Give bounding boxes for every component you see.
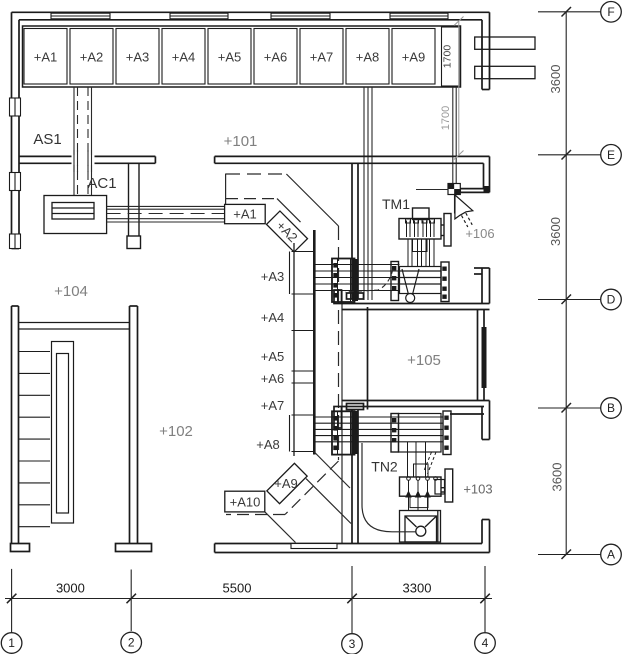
V lines and circle bbox=[402, 269, 409, 295]
corridor diagonal outer bbox=[286, 174, 338, 226]
cabinet +A3 bbox=[116, 29, 159, 85]
axis circle 2 bbox=[121, 632, 142, 653]
ext line 1 bbox=[11, 569, 13, 633]
wall segment lower bbox=[351, 410, 353, 544]
stair left foot bbox=[11, 544, 30, 552]
svg-text:+A3: +A3 bbox=[126, 50, 150, 65]
box +A9 rotated bbox=[267, 463, 307, 503]
corridor dashed outer bbox=[226, 173, 286, 175]
svg-text:+102: +102 bbox=[159, 423, 193, 440]
bend diagonal inner bottom bbox=[306, 479, 351, 524]
connector block C TN2 bbox=[443, 411, 451, 455]
AC1 outer box bbox=[44, 196, 107, 234]
tray divider 2 bbox=[292, 293, 315, 295]
box +A10 bbox=[225, 491, 265, 512]
svg-text:+A7: +A7 bbox=[310, 50, 334, 65]
wall left bottom cap bbox=[12, 248, 20, 250]
wall right top outer bbox=[489, 12, 491, 89]
TN2 drops from bundle bbox=[408, 442, 437, 477]
AC1 inner box bbox=[52, 203, 94, 220]
tick B bbox=[562, 403, 572, 413]
tray divider 6 bbox=[292, 414, 315, 416]
ext line 4 bbox=[484, 566, 486, 632]
axis circle 3 bbox=[342, 634, 363, 654]
door jamb +105 top bbox=[367, 307, 369, 410]
route dashed diagonal bottom bbox=[285, 461, 339, 515]
wall left outer line bbox=[11, 12, 13, 248]
connector block C TM1 bbox=[441, 262, 449, 302]
TM1 body bbox=[399, 219, 441, 240]
TN2 funnel bbox=[400, 511, 441, 543]
svg-text:+103: +103 bbox=[463, 482, 492, 497]
bottom right corner wall bbox=[481, 520, 483, 544]
route dashed horizontal bottom bbox=[226, 514, 285, 516]
svg-text:2: 2 bbox=[128, 636, 135, 650]
svg-text:B: B bbox=[607, 401, 615, 415]
svg-text:+A4: +A4 bbox=[172, 50, 196, 65]
lines through body bbox=[408, 480, 410, 510]
wall right of +105 bbox=[477, 310, 479, 401]
svg-text:F: F bbox=[607, 5, 614, 19]
box +A2 rotated bbox=[266, 211, 307, 252]
wall dark fill at bundle crossing TN2 bbox=[352, 411, 358, 454]
stair treads bbox=[19, 351, 51, 353]
svg-text:+A10: +A10 bbox=[230, 495, 261, 510]
door sill in bottom wall bbox=[291, 544, 337, 549]
junction box with cross bbox=[448, 184, 460, 195]
corridor diagonal inner bbox=[277, 199, 301, 223]
window band top wall bbox=[51, 13, 448, 19]
tick A bbox=[562, 550, 572, 560]
axis D line bbox=[538, 299, 601, 301]
TN2 body bbox=[400, 469, 453, 502]
bundle lines TN2 bbox=[314, 416, 443, 418]
cabinet +A5 bbox=[208, 29, 251, 85]
TN2 right pole rect bbox=[445, 469, 453, 502]
tick E bbox=[562, 150, 572, 160]
cable drop right to junction box bbox=[453, 87, 456, 214]
wall top outer line bbox=[12, 11, 490, 13]
wall left inner line bbox=[18, 20, 20, 249]
svg-text:1700: 1700 bbox=[440, 106, 452, 130]
axis circle F bbox=[601, 2, 622, 23]
axis B line bbox=[538, 407, 601, 409]
bottom dim line bbox=[5, 598, 492, 600]
svg-text:3600: 3600 bbox=[548, 217, 563, 246]
svg-text:+A4: +A4 bbox=[261, 310, 285, 325]
connector block A TM1 bbox=[332, 259, 355, 303]
TN2 cable curve bbox=[362, 443, 416, 532]
axis circle 1 bbox=[1, 633, 22, 654]
svg-text:5500: 5500 bbox=[223, 581, 252, 596]
svg-text:E: E bbox=[607, 148, 615, 162]
cabinet +A9 bbox=[392, 29, 435, 85]
window W1 bbox=[51, 13, 110, 19]
axis circle D bbox=[601, 289, 622, 310]
stair left wall bbox=[11, 306, 13, 544]
svg-text:+105: +105 bbox=[407, 352, 441, 369]
wall segment upper bbox=[351, 163, 353, 299]
tray divider 1 bbox=[292, 251, 315, 253]
tick 1 bbox=[7, 594, 17, 604]
TN2 top small rect bbox=[414, 464, 429, 477]
svg-text:3: 3 bbox=[349, 637, 356, 651]
wall D top of +105 bbox=[342, 303, 490, 305]
tick D bbox=[562, 295, 572, 305]
svg-text:TN2: TN2 bbox=[371, 459, 398, 475]
svg-text:+A2: +A2 bbox=[80, 50, 104, 65]
wall right top inner bbox=[481, 20, 483, 90]
bend diagonal outer bottom bbox=[314, 452, 350, 488]
svg-text:+A7: +A7 bbox=[261, 398, 285, 413]
axis circle A bbox=[601, 544, 622, 565]
connector block B TM1 bbox=[391, 262, 399, 301]
pier below B wall bbox=[334, 407, 342, 429]
bar right of B wall bbox=[450, 413, 484, 415]
svg-text:+A1: +A1 bbox=[34, 50, 58, 65]
svg-text:AS1: AS1 bbox=[33, 131, 61, 148]
svg-text:+A9: +A9 bbox=[274, 476, 298, 491]
svg-text:+A8: +A8 bbox=[356, 50, 380, 65]
TM1 right pole rect bbox=[444, 214, 451, 247]
window WL2 bbox=[10, 173, 21, 191]
corridor dashed inner bbox=[226, 198, 277, 200]
wall cap upper bbox=[347, 293, 364, 299]
tick 2 bbox=[127, 594, 137, 604]
svg-text:4: 4 bbox=[482, 636, 489, 650]
bend left vertical bbox=[225, 174, 227, 205]
cabinet face line +A8 section bbox=[289, 415, 291, 452]
window W3 bbox=[271, 13, 330, 19]
wall AS1 segment bbox=[19, 155, 155, 157]
busway AC1 to +A1 bbox=[107, 206, 225, 222]
tick F bbox=[562, 7, 572, 17]
svg-text:AC1: AC1 bbox=[87, 175, 116, 192]
wall gap at cable crossing bbox=[72, 155, 95, 165]
cabinet +A6 bbox=[254, 29, 297, 85]
wall D left part handled above; right outer segment bbox=[481, 268, 483, 304]
svg-text:3000: 3000 bbox=[56, 581, 85, 596]
svg-text:+A9: +A9 bbox=[402, 50, 426, 65]
distribution rect TN2 bbox=[399, 414, 442, 453]
cabinet +A8 bbox=[346, 29, 389, 85]
tray divider 7 bbox=[292, 451, 315, 453]
wall right top cap bbox=[482, 89, 490, 91]
wall B bottom of +105 bbox=[342, 400, 490, 402]
window W4 bbox=[390, 13, 448, 19]
cabinet +A7 bbox=[300, 29, 343, 85]
svg-text:3600: 3600 bbox=[548, 65, 563, 94]
axis circle B bbox=[601, 398, 622, 419]
cable drop from +A2 to AC1 bbox=[74, 87, 92, 196]
tick 3 bbox=[347, 594, 357, 604]
stair right wall bbox=[129, 306, 131, 544]
wall E-notch right bbox=[489, 156, 491, 192]
busbar arm 1 top right bbox=[475, 37, 535, 49]
cabinet +A1 bbox=[24, 29, 67, 85]
svg-text:+106: +106 bbox=[465, 226, 494, 241]
wall pier between doors bbox=[127, 163, 141, 248]
TM1 drops to switch bbox=[407, 239, 409, 267]
axis A line bbox=[538, 554, 601, 556]
cable drop from +A8 to TM1 switchboard bbox=[364, 87, 372, 300]
wall dark fill at bundle crossing TM1 bbox=[352, 259, 358, 301]
axis circle E bbox=[601, 145, 622, 166]
line to junction box bbox=[416, 189, 448, 191]
TM1 cable curve bbox=[345, 269, 393, 292]
pier left of D wall bbox=[334, 290, 342, 304]
axis E line bbox=[538, 154, 601, 156]
bottom wall bbox=[215, 543, 482, 545]
cabinet +A4 bbox=[162, 29, 205, 85]
busbar arm 2 top right bbox=[475, 66, 535, 78]
+103 devices bbox=[435, 480, 445, 495]
tray divider 5 bbox=[292, 382, 315, 384]
stair right foot bbox=[116, 544, 152, 552]
wall top inner line bbox=[19, 19, 482, 21]
svg-text:+104: +104 bbox=[54, 283, 88, 300]
tray cabinet labels bbox=[256, 269, 284, 452]
axis F line bbox=[538, 11, 601, 13]
outer wall below B bbox=[450, 401, 490, 440]
box +A1 bbox=[225, 204, 266, 223]
svg-text:3300: 3300 bbox=[403, 581, 432, 596]
svg-text:3600: 3600 bbox=[550, 463, 565, 492]
svg-text:A: A bbox=[607, 548, 615, 562]
svg-text:+101: +101 bbox=[224, 133, 258, 150]
svg-text:+A6: +A6 bbox=[264, 50, 288, 65]
tray right edge bbox=[313, 230, 316, 455]
cabinet row outer rect bbox=[23, 26, 461, 87]
svg-text:+A8: +A8 bbox=[256, 437, 280, 452]
TM1 bushings bbox=[406, 221, 408, 238]
window WL3 bbox=[10, 234, 21, 249]
cabinet +A2 bbox=[70, 29, 113, 85]
stair flight outer rect bbox=[52, 342, 74, 524]
stair landing line bbox=[19, 322, 130, 324]
cabinet face line +A3 section bbox=[289, 252, 291, 295]
wall +101 segment bbox=[215, 155, 490, 157]
svg-text:+A5: +A5 bbox=[218, 50, 242, 65]
svg-text:D: D bbox=[607, 293, 616, 307]
ext line 3 bbox=[351, 566, 353, 634]
svg-text:1700: 1700 bbox=[442, 45, 454, 69]
window W2 bbox=[170, 13, 228, 19]
switch box TM1 bbox=[400, 267, 442, 303]
stair flight inner rect bbox=[57, 354, 69, 514]
connector block B TN2 bbox=[391, 414, 399, 453]
svg-text:+A3: +A3 bbox=[261, 269, 285, 284]
route dashed vertical bbox=[338, 226, 340, 460]
TM1 top rect bbox=[413, 208, 430, 220]
cursor arrow +106 bbox=[455, 195, 473, 227]
svg-text:+A5: +A5 bbox=[261, 349, 285, 364]
cabinet 1700 section bbox=[442, 27, 460, 86]
svg-text:+A6: +A6 bbox=[261, 371, 285, 386]
bundle lines TM1 bbox=[314, 264, 399, 266]
tray divider 4 bbox=[292, 370, 315, 372]
svg-text:+A1: +A1 bbox=[233, 207, 257, 222]
connector block A TN2 bbox=[332, 411, 355, 454]
window WL1 bbox=[10, 98, 21, 116]
svg-text:TM1: TM1 bbox=[382, 196, 410, 212]
tick 4 bbox=[480, 594, 490, 604]
tray left edge bbox=[293, 243, 295, 456]
svg-text:1: 1 bbox=[8, 636, 15, 650]
ext line 2 bbox=[130, 570, 132, 632]
tray divider 3 bbox=[292, 330, 315, 332]
wall cap lower bbox=[347, 404, 364, 410]
corridor line solid bbox=[341, 290, 343, 544]
right dim vertical bbox=[565, 12, 567, 555]
windows left wall bbox=[10, 98, 21, 249]
axis circle 4 bbox=[475, 633, 496, 654]
bend diagonal A10 to wall bbox=[265, 512, 296, 543]
window in +105 right wall bbox=[482, 327, 487, 388]
